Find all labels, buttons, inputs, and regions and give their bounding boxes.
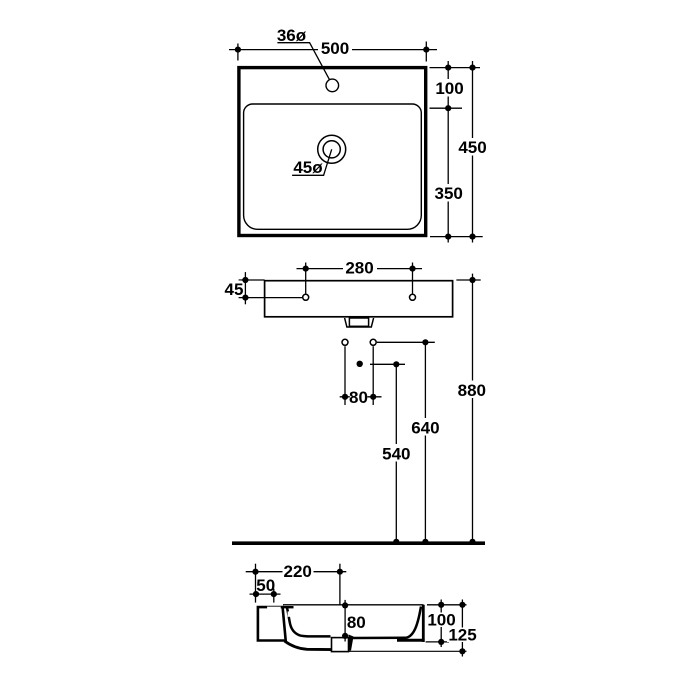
- svg-text:880: 880: [458, 381, 486, 400]
- dimension line 880 (x=472.5): [456, 274, 488, 542]
- dimension line 125 (side view x=462.4): [447, 600, 478, 657]
- dimension line 640 (x=425.4): [410, 339, 442, 542]
- bowl outer right edge (side view): [422, 605, 425, 642]
- basin rim top line (side view): [283, 604, 424, 606]
- basin front rectangle: [265, 281, 453, 317]
- dimension 45 (hole depth from top): [225, 272, 303, 304]
- dimension line 540 (x=396.3): [381, 361, 413, 542]
- bowl floor and right inner wall (side view): [352, 607, 421, 639]
- svg-text:640: 640: [411, 419, 439, 438]
- under line to 125 dimension (side view): [349, 650, 467, 652]
- dimension 50 (side view): [250, 576, 281, 603]
- dimension 80 vertical (side view): [342, 600, 366, 642]
- floor line: [232, 539, 485, 545]
- drain hole 45ø outer circle (top view): [318, 135, 346, 163]
- extension line at bottom right corner y=236.6: [430, 236, 483, 238]
- drain hole 45ø inner circle (top view): [323, 141, 340, 158]
- extension line at bottom level right (side view): [426, 641, 449, 643]
- extension line at top right corner y=67.6: [430, 67, 481, 69]
- dimension line 100 (side view x=441.2): [426, 600, 457, 648]
- svg-text:280: 280: [345, 258, 373, 277]
- extension line at rim level right (side view): [427, 604, 467, 606]
- bowl lower outer wall (side view): [285, 641, 332, 650]
- svg-text:540: 540: [382, 445, 410, 464]
- label 36ø with leader line to faucet hole: [277, 26, 329, 79]
- svg-text:220: 220: [284, 562, 312, 581]
- svg-text:45: 45: [225, 280, 244, 299]
- dimension 500 (top view width): [229, 39, 437, 61]
- dimension line 450 (x=472.5): [457, 61, 488, 243]
- extension line at rim top y=108.2: [430, 107, 463, 109]
- drain box (side view): [332, 635, 354, 652]
- dimension 280 (mounting holes spacing): [297, 258, 423, 293]
- svg-text:500: 500: [321, 39, 349, 58]
- bowl outer bottom edge (side view): [397, 639, 425, 642]
- drain outlet center dot: [357, 361, 363, 367]
- drain fitting trapezoid (front view): [345, 318, 374, 327]
- svg-text:350: 350: [435, 184, 463, 203]
- overflow notch (white slot in left wall): [288, 611, 292, 616]
- svg-text:80: 80: [347, 613, 366, 632]
- svg-text:100: 100: [435, 79, 463, 98]
- left siphon hole circle (below front view): [342, 339, 348, 405]
- svg-text:80: 80: [349, 388, 368, 407]
- faucet hole 36ø (top view): [326, 79, 339, 92]
- svg-text:450: 450: [458, 138, 486, 157]
- dimension 220 (side view): [246, 562, 347, 605]
- svg-text:45ø: 45ø: [293, 158, 323, 177]
- label 45ø with leader line to drain hole: [292, 149, 332, 177]
- bowl left inner wall (side view): [283, 607, 331, 636]
- basin outer square (top view): [239, 68, 426, 236]
- link line from drain center level to 540 line: [370, 363, 405, 365]
- basin inner rim rounded rect (top view): [244, 104, 422, 229]
- svg-text:125: 125: [448, 625, 476, 644]
- right siphon hole circle (below front view): [370, 339, 376, 405]
- left mounting hole (front view): [303, 294, 309, 300]
- dimension line 100/350 (x=448.2): [433, 61, 464, 243]
- right mounting hole (front view): [410, 294, 416, 300]
- dimension 80 (siphon holes spacing): [340, 388, 382, 407]
- link line from siphon hole level to 640 line: [377, 341, 435, 343]
- wall bracket box (side view): [258, 605, 286, 641]
